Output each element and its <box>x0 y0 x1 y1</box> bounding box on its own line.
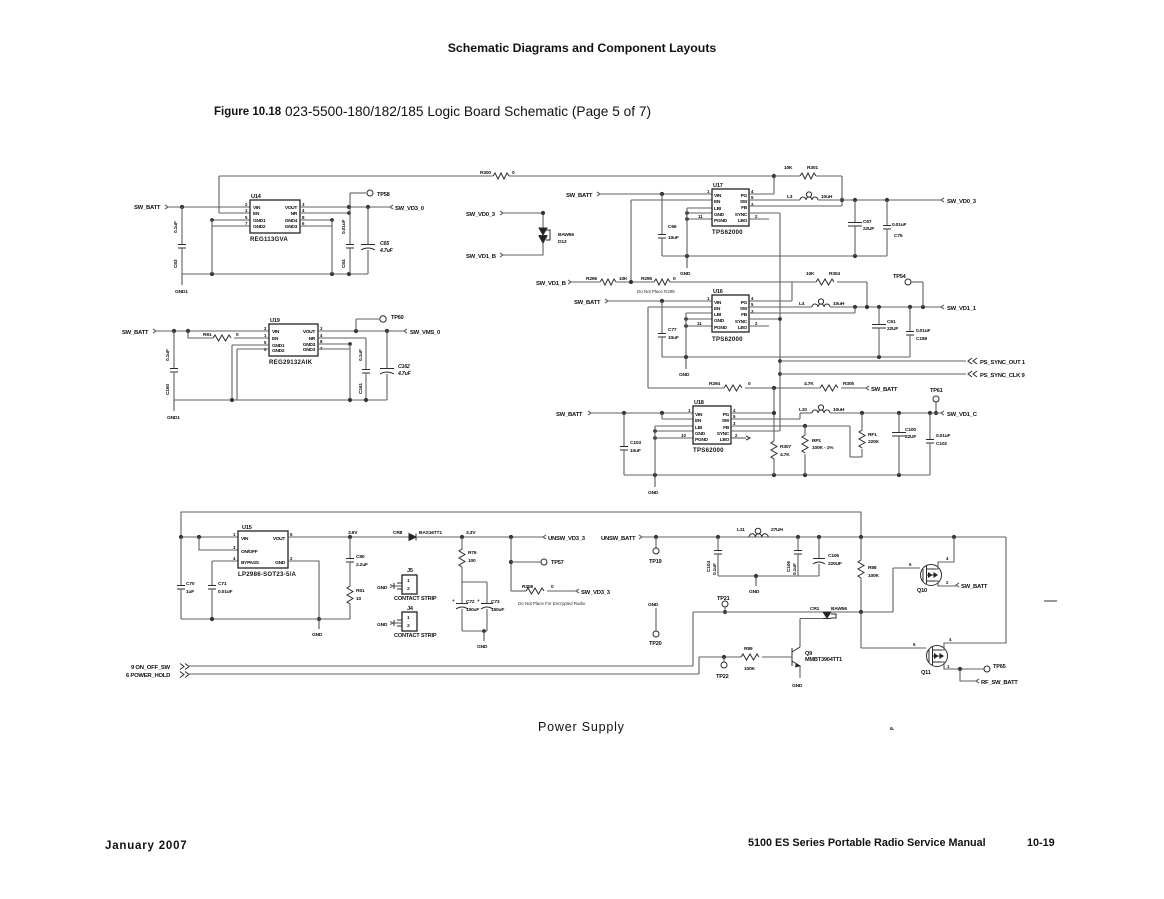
test point TP19 <box>655 537 657 548</box>
svg-text:R296: R296 <box>586 276 597 282</box>
svg-text:R91: R91 <box>203 332 212 338</box>
wire U14 right GND pins <box>300 219 332 221</box>
svg-text:CONTACT STRIP: CONTACT STRIP <box>394 633 437 639</box>
svg-text:100K: 100K <box>744 666 756 672</box>
svg-text:GND: GND <box>679 372 690 378</box>
svg-text:FB: FB <box>741 205 748 211</box>
wire ground rail U17 <box>662 255 887 257</box>
wire U14 GND pins to left gnd drop <box>212 219 250 221</box>
svg-text:11: 11 <box>698 214 703 219</box>
svg-text:10K: 10K <box>784 165 793 171</box>
svg-text:C103: C103 <box>630 440 641 446</box>
test point TP54 <box>905 279 911 285</box>
capacitor C65 4.7uF <box>367 207 369 244</box>
transistor Q11 P-FET <box>927 646 948 667</box>
svg-text:PG: PG <box>741 300 748 306</box>
ground GND1 (U19) <box>173 400 175 411</box>
svg-text:REG29132AIK: REG29132AIK <box>269 359 313 366</box>
svg-text:EN: EN <box>253 211 260 217</box>
wire U15 VIN <box>181 536 238 538</box>
IC U16 TPS62000 <box>712 295 749 332</box>
svg-text:SW_VD0_3: SW_VD0_3 <box>947 199 977 205</box>
test point TP57 <box>510 537 512 591</box>
svg-text:GND3: GND3 <box>285 224 298 230</box>
svg-text:U15: U15 <box>242 525 252 531</box>
IC U18 TPS62000 <box>693 406 731 444</box>
svg-text:SW_BATT: SW_BATT <box>122 330 149 336</box>
svg-text:C161: C161 <box>358 383 364 394</box>
svg-text:C63: C63 <box>173 259 179 268</box>
wire to RF_SW_BATT <box>960 669 976 681</box>
capacitor C158 0.01uF <box>909 307 911 331</box>
wire U16 FB to output <box>749 312 855 314</box>
svg-text:EN: EN <box>714 306 721 312</box>
resistor RF1 220K <box>861 413 863 430</box>
svg-text:10uF: 10uF <box>668 335 679 341</box>
svg-text:RF_SW_BATT: RF_SW_BATT <box>981 680 1018 686</box>
wire L4 to SW_VD1_1 <box>830 306 941 308</box>
wire SW_VD1_B to D13 <box>503 243 543 255</box>
svg-text:GND: GND <box>714 318 725 324</box>
wire SW_BATT to U19 VIN <box>156 330 269 332</box>
wire top net to R300 <box>219 175 493 177</box>
wire U17 LBI GND PGND to gnd drop <box>687 207 712 209</box>
wire U17 EN to sequencing node <box>631 199 712 201</box>
svg-text:5100 ES Series Portable Radio: 5100 ES Series Portable Radio Service Ma… <box>748 837 986 849</box>
svg-text:TP22: TP22 <box>716 674 729 680</box>
wire U19 left GND pins <box>232 344 269 346</box>
svg-text:GND: GND <box>312 632 323 638</box>
wire ground rail U14 <box>182 273 368 275</box>
svg-text:FB: FB <box>741 312 748 318</box>
svg-text:U16: U16 <box>713 289 723 295</box>
svg-text:UNSW_BATT: UNSW_BATT <box>601 536 636 542</box>
svg-text:UNSW_VD3_3: UNSW_VD3_3 <box>548 536 586 542</box>
svg-text:U17: U17 <box>713 183 723 189</box>
svg-text:LBI: LBI <box>714 206 722 212</box>
resistor R296 10K <box>571 281 600 283</box>
svg-text:C71: C71 <box>218 581 227 587</box>
svg-text:Figure 10.18: Figure 10.18 <box>214 106 282 118</box>
svg-text:0.1uF: 0.1uF <box>165 349 171 361</box>
wire U16 PG riser <box>791 282 793 301</box>
ground GND (U16) <box>685 357 687 369</box>
svg-text:GND: GND <box>792 683 803 689</box>
resistor R295b 0 ohm (EN feed) <box>648 387 724 389</box>
ground GND (U17) <box>686 256 688 268</box>
svg-text:3.6V: 3.6V <box>348 530 358 536</box>
node SW_VD1_C output <box>941 411 944 415</box>
svg-text:11: 11 <box>697 321 702 326</box>
svg-text:VOUT: VOUT <box>285 205 298 211</box>
junction C63 tap <box>180 205 184 209</box>
ground GND (U18) <box>654 475 656 487</box>
svg-text:SW_BATT: SW_BATT <box>961 584 988 590</box>
svg-text:R76: R76 <box>468 550 477 556</box>
svg-text:R307: R307 <box>780 444 791 450</box>
svg-text:2.2uF: 2.2uF <box>356 562 368 568</box>
svg-text:MMBT3904TT1: MMBT3904TT1 <box>805 657 842 663</box>
svg-text:C162: C162 <box>398 364 410 370</box>
svg-text:PGND: PGND <box>714 325 728 331</box>
svg-text:SW_VD1_B: SW_VD1_B <box>466 254 496 260</box>
capacitor C67 22UF <box>854 200 856 222</box>
node SW_BATT (pullup) <box>866 386 869 390</box>
svg-text:L3: L3 <box>787 194 793 200</box>
svg-text:0.01uF: 0.01uF <box>892 222 907 228</box>
ground GND (U15 rail) <box>318 619 320 629</box>
svg-text:C64: C64 <box>341 259 347 268</box>
svg-text:SW_VD3_0: SW_VD3_0 <box>395 206 425 212</box>
IC U14 regulator <box>250 200 300 233</box>
wire Q10 gate route <box>892 568 894 612</box>
wire UNSW_BATT filter line <box>642 536 1006 538</box>
svg-text:U18: U18 <box>694 400 704 406</box>
inductor L3 10uH <box>749 199 800 201</box>
svg-text:C61: C61 <box>887 319 896 325</box>
svg-text:10uH: 10uH <box>833 407 845 413</box>
test point TP22 <box>722 655 726 659</box>
wire U14 VOUT <box>300 206 390 208</box>
svg-text:0.1uF: 0.1uF <box>792 563 798 575</box>
wire PS_SYNC_OUT <box>778 359 782 363</box>
svg-text:U19: U19 <box>270 318 280 324</box>
resistor R51 10 <box>347 586 353 604</box>
svg-text:R294: R294 <box>709 381 720 387</box>
svg-text:TP65: TP65 <box>993 664 1006 670</box>
resistor R295 0 ohm <box>654 279 670 285</box>
svg-text:4.7uF: 4.7uF <box>397 371 412 377</box>
ground rail U15 <box>181 618 350 620</box>
test point TP58 <box>350 192 366 194</box>
wire U17 PG to pull-up node <box>749 193 774 195</box>
capacitor C75 0.01uF <box>886 200 888 225</box>
wire ON/OFF <box>199 537 238 550</box>
capacitor C100 22UF <box>898 413 900 432</box>
svg-text:27UH: 27UH <box>771 527 783 533</box>
svg-text:TPS62000: TPS62000 <box>712 336 743 343</box>
svg-text:C66: C66 <box>668 224 677 230</box>
wire R301 to output node / FB <box>841 176 843 206</box>
wire ground rail U16 <box>662 356 910 358</box>
svg-text:C67: C67 <box>863 219 872 225</box>
svg-text:C65: C65 <box>380 241 389 247</box>
svg-text:C104: C104 <box>706 561 712 572</box>
svg-text:SW_BATT: SW_BATT <box>566 193 593 199</box>
svg-text:C73: C73 <box>491 599 500 605</box>
svg-text:Do Not Place For Encrypted Rad: Do Not Place For Encrypted Radio <box>518 601 586 606</box>
wire filter gnd rail <box>718 575 819 577</box>
capacitor C63 0.1uF <box>181 207 183 244</box>
svg-text:0.01uF: 0.01uF <box>341 219 347 234</box>
resistor R89 100K <box>699 656 741 658</box>
resistor RP1 100K 1% <box>804 426 806 435</box>
svg-text:SW_VD1_C: SW_VD1_C <box>947 412 978 418</box>
svg-text:J5: J5 <box>407 568 413 574</box>
svg-text:10K: 10K <box>619 276 628 282</box>
svg-text:Power Supply: Power Supply <box>538 720 625 734</box>
svg-text:C80: C80 <box>356 554 365 560</box>
svg-text:TP58: TP58 <box>377 192 390 198</box>
svg-text:Do Not Place R295: Do Not Place R295 <box>637 289 675 294</box>
svg-text:PGND: PGND <box>714 218 728 224</box>
wire UNSW_BATT top feed <box>181 512 861 537</box>
svg-text:SW_VD3_3: SW_VD3_3 <box>581 590 611 596</box>
wire POWER_HOLD <box>188 673 699 675</box>
svg-text:10uF: 10uF <box>630 448 641 454</box>
resistor R300 0 ohm <box>493 173 509 179</box>
svg-text:VIN: VIN <box>695 412 703 418</box>
svg-text:TP20: TP20 <box>649 641 662 647</box>
svg-text:0.1uF: 0.1uF <box>173 221 179 233</box>
svg-text:D13: D13 <box>558 239 567 245</box>
svg-text:LBI: LBI <box>695 425 703 431</box>
svg-text:GND2: GND2 <box>272 348 285 354</box>
ground C72/C73 <box>462 630 487 632</box>
svg-text:NR: NR <box>309 336 316 342</box>
svg-text:C158: C158 <box>916 336 927 342</box>
svg-text:EN: EN <box>695 418 702 424</box>
svg-text:R295: R295 <box>641 276 652 282</box>
test point TP60 <box>355 319 357 331</box>
diode CR8 BAS16TT1 <box>409 534 416 541</box>
wire U19 VOUT <box>318 330 404 332</box>
svg-text:C75: C75 <box>894 233 903 239</box>
node SW_VD0_3 output <box>941 198 944 202</box>
resistor R307 4.7K <box>771 441 777 459</box>
node SW_VMS_0 <box>404 329 407 333</box>
svg-text:C72: C72 <box>466 599 475 605</box>
IC U17 TPS62000 <box>712 189 749 226</box>
capacitor C70 1uF <box>180 537 182 585</box>
svg-text:BAW56: BAW56 <box>558 232 574 238</box>
svg-text:0.1uF: 0.1uF <box>712 563 718 575</box>
resistor R305 4.7K <box>820 385 838 391</box>
wire ON_OFF / CR1 line <box>693 611 893 613</box>
svg-text:4.7K: 4.7K <box>780 452 790 458</box>
wire U16 LBO stub <box>749 325 769 327</box>
resistor R308 0 (SW_VD3_3) <box>511 590 526 592</box>
svg-text:10: 10 <box>681 433 686 438</box>
svg-text:VIN: VIN <box>241 536 249 542</box>
wire Q10 source to SW_BATT <box>936 581 957 586</box>
svg-text:10-19: 10-19 <box>1027 837 1055 849</box>
svg-text:6 POWER_HOLD: 6 POWER_HOLD <box>126 673 170 679</box>
svg-text:VOUT: VOUT <box>303 329 316 335</box>
inductor L11 27UH <box>749 534 768 537</box>
svg-text:SW_BATT: SW_BATT <box>556 412 583 418</box>
svg-text:SW_VMS_0: SW_VMS_0 <box>410 330 441 336</box>
svg-text:R304: R304 <box>829 271 840 277</box>
wire U16 LBI GND PGND to gnd drop <box>686 312 712 314</box>
wire U16 EN from R295 line <box>648 306 712 308</box>
svg-text:R89: R89 <box>744 646 753 652</box>
svg-text:Q10: Q10 <box>917 588 927 594</box>
wire ground rail U18 <box>624 474 930 476</box>
wire L10 to SW_VD1_C <box>830 412 941 414</box>
svg-text:TP54: TP54 <box>893 274 907 280</box>
svg-text:VIN: VIN <box>272 329 280 335</box>
svg-text:TP60: TP60 <box>391 315 404 321</box>
svg-text:LBO: LBO <box>738 218 748 224</box>
svg-text:PS_SYNC_CLK 9: PS_SYNC_CLK 9 <box>980 373 1026 379</box>
svg-text:C102: C102 <box>936 441 947 447</box>
svg-text:0.01uF: 0.01uF <box>916 328 931 334</box>
svg-text:BYPASS: BYPASS <box>241 560 260 566</box>
svg-text:SW_BATT: SW_BATT <box>871 387 898 393</box>
svg-text:L10: L10 <box>799 407 807 413</box>
wire L3 to SW_VD0_3 <box>818 199 941 201</box>
svg-text:SW_VD1_1: SW_VD1_1 <box>947 306 977 312</box>
svg-text:SW: SW <box>722 418 730 424</box>
svg-text:GND3: GND3 <box>303 347 316 353</box>
wire EN to top net <box>219 212 250 214</box>
svg-text:C70: C70 <box>186 581 195 587</box>
wire R300 to U17 PG pull node <box>509 175 774 177</box>
svg-text:R51: R51 <box>356 588 365 594</box>
svg-text:220K: 220K <box>868 439 880 445</box>
ground (filter) <box>755 576 757 586</box>
svg-text:SW_VD1_B: SW_VD1_B <box>536 281 566 287</box>
svg-text:BAS16TT1: BAS16TT1 <box>419 530 442 536</box>
svg-text:R88: R88 <box>868 565 877 571</box>
svg-text:22UF: 22UF <box>863 226 874 232</box>
svg-text:SW_BATT: SW_BATT <box>134 205 161 211</box>
svg-text:SYNC: SYNC <box>735 212 748 218</box>
svg-text:LBO: LBO <box>720 437 730 443</box>
node SW_VD1_1 output <box>941 305 944 309</box>
svg-text:TP57: TP57 <box>551 560 564 566</box>
wire CR1 to Q9 collector <box>800 618 823 620</box>
svg-text:150uF: 150uF <box>491 607 504 613</box>
svg-text:CR1: CR1 <box>810 606 820 612</box>
inductor L10 10uH <box>731 418 800 420</box>
wire BYPASS to gnd <box>212 560 238 562</box>
svg-text:GND: GND <box>680 271 691 277</box>
svg-text:VIN: VIN <box>253 205 261 211</box>
svg-text:L11: L11 <box>737 527 745 533</box>
svg-text:GND: GND <box>648 490 659 496</box>
wire U15 GND pin <box>288 561 319 619</box>
capacitor C161 0.1uF <box>365 338 367 369</box>
svg-text:10uH: 10uH <box>821 194 833 200</box>
svg-text:L4: L4 <box>799 301 805 307</box>
svg-text:3.3V: 3.3V <box>466 530 476 536</box>
wire CR8 to 3.3V node <box>416 536 543 538</box>
svg-text:VOUT: VOUT <box>273 536 286 542</box>
wire ground rail U19 <box>174 399 387 401</box>
node UNSW_VD3_3 <box>543 535 546 539</box>
capacitor C105 220UF <box>818 537 820 558</box>
svg-text:SYNC: SYNC <box>735 319 748 325</box>
svg-text:U14: U14 <box>251 194 262 200</box>
svg-text:+: + <box>477 598 480 603</box>
svg-text:VIN: VIN <box>714 300 722 306</box>
svg-text:10uH: 10uH <box>833 301 845 307</box>
wire U14 NR to C64 <box>300 212 349 214</box>
svg-text:SW_VD0_3: SW_VD0_3 <box>466 212 496 218</box>
capacitor C162 4.7uF <box>386 331 388 368</box>
svg-text:GND: GND <box>275 560 286 566</box>
svg-text:GND1: GND1 <box>175 289 188 295</box>
capacitor C160 0.1uF <box>173 331 175 368</box>
svg-text:TPS62000: TPS62000 <box>712 229 743 236</box>
svg-text:GND: GND <box>377 622 388 628</box>
svg-text:LP2986-SOT23-5/A: LP2986-SOT23-5/A <box>238 571 297 578</box>
node PS_SYNC_CLK 9 <box>968 371 977 377</box>
svg-text:SYNC: SYNC <box>717 431 730 437</box>
svg-text:+: + <box>452 598 455 603</box>
svg-text:C100: C100 <box>905 427 916 433</box>
svg-text:Q11: Q11 <box>921 670 931 676</box>
capacitor C106 0.1uF <box>797 537 799 550</box>
svg-text:GND: GND <box>377 585 388 591</box>
svg-text:NR: NR <box>291 211 298 217</box>
wire SW_BATT to U14 VIN <box>168 206 250 208</box>
svg-text:10K: 10K <box>806 271 815 277</box>
IC U15 LP2986 <box>238 531 288 568</box>
svg-text:GND1: GND1 <box>253 218 266 224</box>
inductor L4 10uH <box>749 306 812 308</box>
ground GND1 (U14) <box>181 274 183 285</box>
wire U18 EN tie to VIN <box>661 413 663 419</box>
svg-text:BAW56: BAW56 <box>831 606 847 612</box>
svg-text:0.01uF: 0.01uF <box>936 433 951 439</box>
svg-text:LBO: LBO <box>738 325 748 331</box>
svg-text:GND2: GND2 <box>253 224 266 230</box>
svg-text:10: 10 <box>356 596 362 602</box>
wire SW_BATT to U16 VIN <box>608 300 712 302</box>
wire SW_BATT to U17 VIN <box>600 193 712 195</box>
wire Q11 gate route <box>860 612 862 648</box>
wire U18 PG to R294 node <box>731 412 774 414</box>
wire U18 LBO stub <box>731 437 746 439</box>
resistor R304 10K <box>792 281 816 283</box>
svg-text:LBI: LBI <box>714 312 722 318</box>
svg-text:R301: R301 <box>807 165 818 171</box>
wire Q11 drain to UNSW_BATT <box>942 537 1007 650</box>
svg-text:22UF: 22UF <box>887 326 898 332</box>
svg-text:GND: GND <box>714 212 725 218</box>
transistor Q10 P-FET <box>921 565 942 586</box>
svg-text:4.7K: 4.7K <box>804 381 814 387</box>
wire Q11 source <box>942 662 985 669</box>
wire U17 FB <box>749 205 842 207</box>
wire U19 NR to C161 <box>318 337 366 339</box>
svg-text:100K - 1%: 100K - 1% <box>812 445 834 451</box>
svg-text:GND: GND <box>648 602 659 608</box>
svg-text:a.: a. <box>890 726 895 732</box>
stray dash right of Q10 <box>1044 600 1057 602</box>
svg-text:Schematic Diagrams and Compone: Schematic Diagrams and Component Layouts <box>448 41 717 55</box>
resistor R301 10K <box>774 175 800 177</box>
wire U15 VOUT 3.6V <box>288 536 409 538</box>
capacitor C61 22UF <box>878 307 880 324</box>
capacitor C103 10uF <box>623 413 625 446</box>
svg-text:PGND: PGND <box>695 437 709 443</box>
wire U17 SYNC to sync bus <box>749 212 780 214</box>
transistor Q9 MMBT3904TT1 <box>791 648 793 666</box>
svg-text:023-5500-180/182/185 Logic Boa: 023-5500-180/182/185 Logic Board Schemat… <box>285 104 651 119</box>
svg-text:C105: C105 <box>828 553 839 559</box>
svg-text:GND: GND <box>749 589 760 595</box>
svg-text:VIN: VIN <box>714 193 722 199</box>
node PS_SYNC_OUT 1 <box>968 358 977 364</box>
svg-text:SW: SW <box>740 306 748 312</box>
svg-text:CR8: CR8 <box>393 530 403 536</box>
svg-text:1uF: 1uF <box>186 589 194 595</box>
svg-text:220UF: 220UF <box>828 561 842 567</box>
